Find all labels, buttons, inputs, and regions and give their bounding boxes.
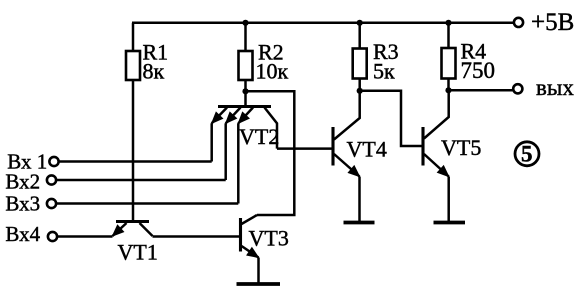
transistor VT3 base bar [239, 218, 242, 252]
transistor VT2 emitter 2 [226, 108, 241, 124]
svg-text:Вх3: Вх3 [5, 191, 40, 215]
transistor VT5 base bar [421, 127, 424, 166]
wire R1 to VT1 base [132, 80, 135, 220]
node R3 bottom junction [357, 88, 363, 94]
resistor R1 [126, 51, 140, 80]
wire VT2 collector to VT4 base [277, 147, 332, 150]
transistor VT5 collector [424, 91, 449, 139]
svg-text:VT1: VT1 [118, 239, 158, 264]
wire +5V supply rail [132, 22, 514, 25]
wire rail to R3 [358, 23, 361, 49]
svg-text:вых: вых [536, 75, 574, 100]
node rail-R4 junction [445, 20, 451, 26]
terminal input2 [47, 175, 56, 184]
wire VT1 collector to VT3 base [153, 235, 240, 238]
svg-text:VT2: VT2 [239, 124, 279, 149]
node R4 bottom junction [445, 87, 451, 93]
wire R2 node to VT3 collector [246, 91, 295, 215]
transistor VT2 collector [265, 108, 278, 149]
svg-text:VT4: VT4 [347, 137, 387, 162]
svg-text:5к: 5к [373, 59, 395, 84]
transistor VT3 emitter [242, 246, 259, 258]
transistor VT1 base bar [116, 220, 149, 223]
svg-text:Вх2: Вх2 [5, 170, 40, 194]
node R2 bottom junction [242, 88, 248, 94]
terminal input4 [48, 232, 57, 241]
wire rail to R1 [132, 23, 135, 51]
transistor VT2 base bar [218, 105, 271, 108]
wire rail to R4 [447, 23, 450, 48]
resistor R3 [353, 49, 367, 79]
transistor VT2 emitter 3 [238, 108, 253, 124]
transistor VT4 emitter [334, 154, 360, 177]
wire VT5 emitter to ground [447, 177, 450, 222]
resistor R2 [239, 51, 253, 80]
wire input1 [59, 160, 212, 163]
wire R3 to collector node [358, 79, 361, 92]
svg-text:VT5: VT5 [441, 135, 481, 160]
terminal input3 [47, 199, 56, 208]
node rail-R3 junction [357, 20, 363, 26]
transistor VT3 collector [242, 215, 258, 224]
label schematic number 5 [515, 142, 539, 166]
svg-text:5: 5 [521, 142, 533, 167]
wire VT3 emitter to ground [257, 258, 260, 284]
ground VT5 [434, 221, 466, 225]
node rail-R2 junction [242, 20, 248, 26]
svg-text:10к: 10к [256, 59, 289, 84]
wire rail to R2 [244, 23, 247, 51]
terminal input1 [49, 157, 58, 166]
wire R2 to VT2 base [244, 80, 247, 107]
wire VT2 emitter2 to input2 [224, 123, 227, 180]
transistor VT4 collector [334, 91, 360, 140]
terminal output [513, 84, 522, 93]
svg-text:8к: 8к [143, 59, 165, 84]
wire input3 [56, 202, 238, 205]
svg-text:750: 750 [461, 58, 496, 83]
wire VT4 emitter to ground [358, 177, 361, 222]
transistor VT2 emitter 1 [212, 108, 227, 124]
transistor VT1 emitter [113, 223, 127, 236]
ground VT3 [237, 282, 281, 286]
resistor R4 [442, 48, 456, 79]
svg-text:+5В: +5В [531, 9, 574, 36]
terminal +5V [514, 18, 523, 27]
wire R4 to output node [447, 79, 450, 92]
wire VT2 emitter3 to input3 [237, 123, 240, 203]
svg-text:VT3: VT3 [249, 226, 289, 251]
wire R3 node to VT5 base [360, 91, 422, 146]
wire input4 [57, 235, 112, 238]
wire input2 [56, 179, 226, 182]
wire VT2 emitter1 to input1 [210, 123, 213, 161]
svg-text:Вх4: Вх4 [5, 222, 40, 246]
transistor VT5 emitter [424, 154, 449, 177]
transistor VT1 collector [140, 223, 153, 236]
ground VT4 [344, 221, 375, 225]
wire output to terminal [449, 89, 513, 92]
transistor VT4 base bar [331, 127, 334, 166]
